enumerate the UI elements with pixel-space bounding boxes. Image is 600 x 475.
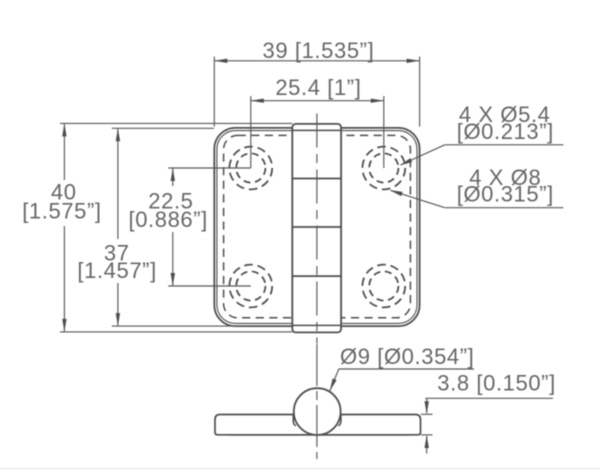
side view centerline (316, 344, 318, 459)
knuckle division lines (292, 130, 341, 325)
svg-text:[0.886”]: [0.886”] (128, 207, 207, 232)
dimension text 37 [1.457"] (77, 240, 156, 283)
side view plate bottom edge restore (230, 434, 410, 436)
dimension 37 [1.457"] line and arrows (116, 128, 120, 326)
svg-text:3.8 [0.150”]: 3.8 [0.150”] (437, 370, 556, 395)
dimension 22.5 [0.886"] extension lines (168, 168, 251, 286)
hole top-left countersink Ø8 (dashed) (229, 147, 272, 190)
hole bottom-left countersink Ø8 (dashed) (229, 265, 272, 308)
barrel centerline (top view) (316, 114, 318, 344)
dimension 40 [1.575"] extension lines (60, 123, 292, 332)
svg-text:39 [1.535”]: 39 [1.535”] (263, 38, 375, 63)
svg-text:Ø9 [Ø0.354”]: Ø9 [Ø0.354”] (340, 344, 474, 369)
hole bottom-right countersink Ø8 (dashed) (362, 265, 405, 308)
hinge barrel (knuckle column) (292, 124, 341, 333)
dimension text 25.4 [1"] (275, 75, 361, 100)
dimension 25.4 [1"] extension lines (251, 96, 384, 168)
dimension 22.5 [0.886"] line and arrows (171, 168, 175, 286)
svg-text:[1.457”]: [1.457”] (77, 258, 156, 283)
svg-text:25.4 [1”]: 25.4 [1”] (275, 75, 361, 100)
side view knuckle circle Ø9 (294, 388, 341, 435)
side view leaf plate (215, 415, 421, 435)
hinge leaf hidden contour (dashed) (224, 135, 411, 317)
leader 4 X Ø8 line and arrow (390, 190, 564, 208)
dimension text 39 [1.535"] (263, 38, 375, 63)
dimension text 22.5 [0.886"] (128, 189, 207, 233)
svg-text:[Ø0.213”]: [Ø0.213”] (457, 119, 554, 144)
dimension 37 [1.457"] extension lines (112, 128, 240, 326)
side view throat fillets (293, 414, 341, 426)
leader text 4 X Ø8 [Ø0.315"] (457, 165, 554, 207)
dimension 25.4 [1"] line and arrows (251, 99, 384, 103)
hinge leaf outer outline (214, 128, 419, 326)
leader text 4 X Ø5.4 [Ø0.213"] (457, 102, 554, 144)
leader 4 X Ø5.4 line and arrow (400, 145, 564, 166)
leader text Ø9 [Ø0.354"] (340, 344, 474, 369)
dimension text 40 [1.575"] (22, 180, 101, 224)
dimension 39 [1.535"] extension lines (214, 57, 419, 127)
hole top-right countersink Ø8 (dashed) (362, 147, 405, 190)
dimension 39 [1.535"] line and arrows (214, 59, 419, 63)
hinge leaf inner edge line (217, 131, 417, 324)
svg-text:[Ø0.315”]: [Ø0.315”] (457, 182, 554, 207)
dimension text 3.8 [0.150"] (437, 370, 556, 395)
dimension 40 [1.575"] line and arrows (62, 123, 66, 332)
dimension 3.8 [0.150"] leader lines (421, 398, 553, 453)
bottom separator line (0, 468, 600, 470)
svg-text:[1.575”]: [1.575”] (22, 199, 101, 224)
leader Ø9 line and arrow (330, 369, 474, 391)
